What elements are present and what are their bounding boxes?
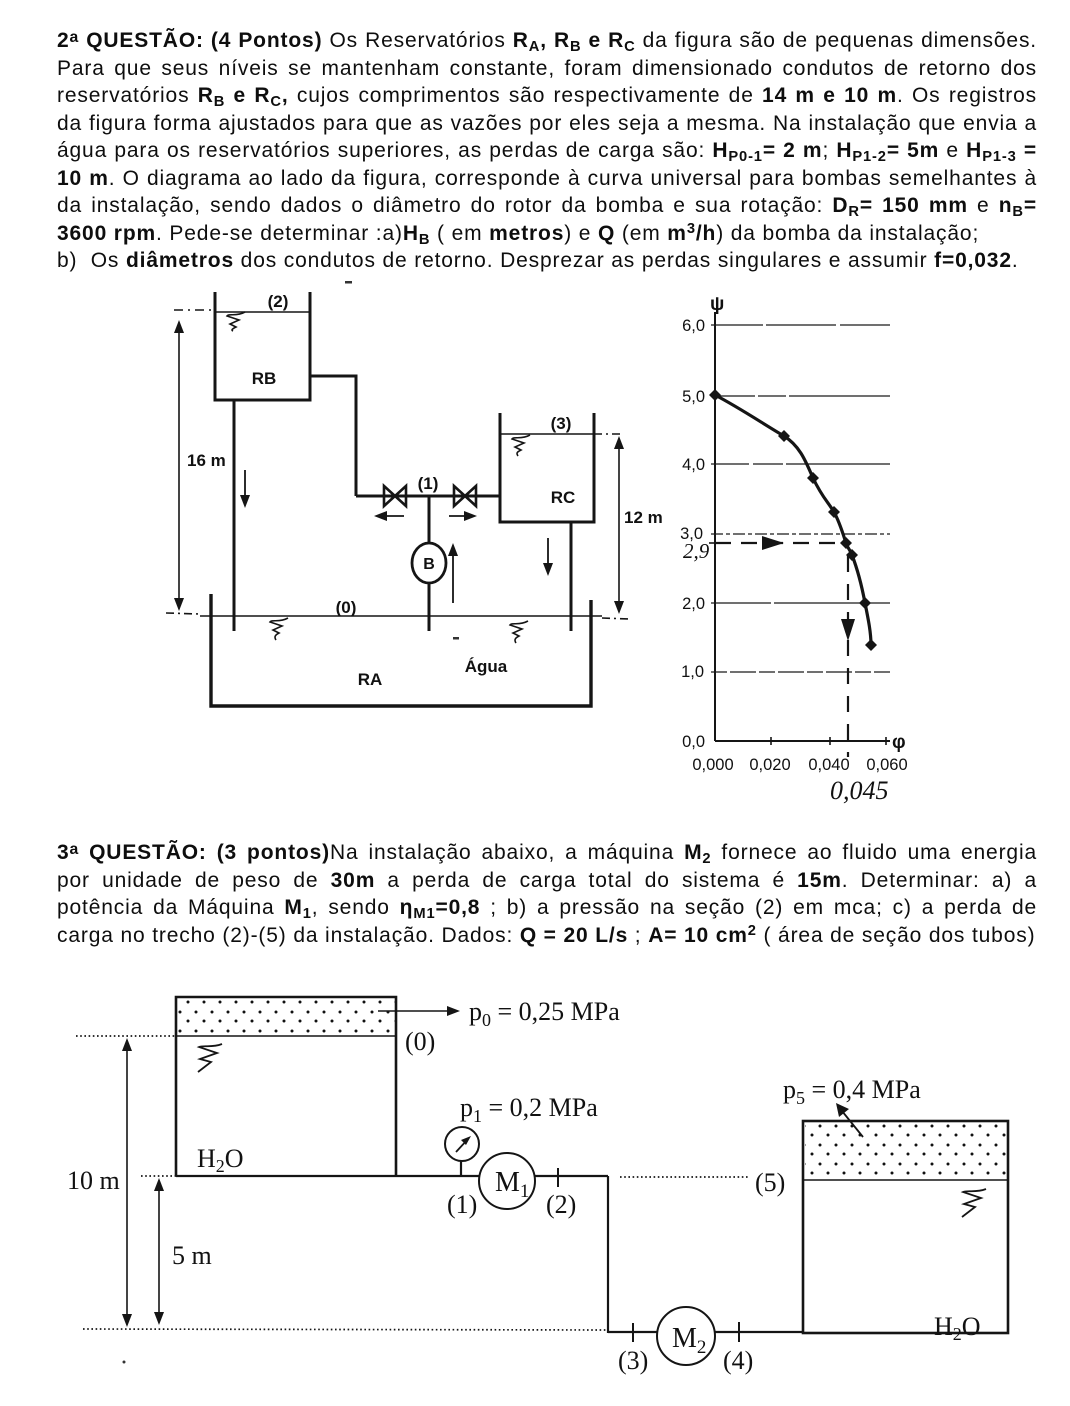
datum dash-dot left of RB	[174, 309, 213, 311]
datum dash-dot left of RA	[166, 613, 200, 614]
pipe RB drain	[233, 400, 236, 631]
svg-text:φ: φ	[892, 732, 906, 753]
bottom pipe	[608, 1331, 803, 1333]
svg-text:(5): (5)	[755, 1168, 785, 1197]
handwritten 0,045	[830, 776, 889, 805]
dotted datum left of pipe level	[141, 1175, 176, 1177]
pump curve	[715, 395, 871, 645]
dashed operating line psi	[715, 536, 845, 550]
label (2)	[268, 292, 289, 311]
label p5 = 0,4 MPa	[783, 1075, 921, 1108]
svg-text:0,020: 0,020	[749, 756, 790, 774]
reservoir RC	[500, 413, 594, 522]
section tick (2)	[557, 1168, 559, 1187]
svg-text:16 m: 16 m	[187, 451, 226, 470]
pipe RB outlet to node 1	[310, 376, 356, 496]
handwritten 2,9	[683, 539, 710, 563]
svg-text:(3): (3)	[618, 1346, 648, 1375]
svg-text:(0): (0)	[405, 1027, 435, 1056]
valve V1	[384, 486, 406, 506]
svg-text:ψ: ψ	[710, 294, 724, 315]
water surface squiggle RC	[512, 435, 530, 456]
tank T5 walls	[803, 1121, 1008, 1333]
stray speck top	[345, 281, 352, 284]
label (3)	[551, 414, 572, 433]
svg-text:p5 = 0,4 MPa: p5 = 0,4 MPa	[783, 1075, 921, 1108]
flow arrow up at pump	[448, 543, 458, 603]
arrow p5	[836, 1103, 863, 1137]
label RB	[252, 369, 277, 388]
valve V2	[454, 486, 476, 506]
axis tick at 2.9	[709, 542, 721, 544]
water level line RC	[500, 433, 594, 435]
dimension 12 m	[614, 436, 663, 614]
psi axis label	[710, 294, 724, 315]
svg-text:(2): (2)	[268, 292, 289, 311]
label (0) section	[405, 1027, 435, 1056]
main pipe level 2	[176, 1175, 608, 1177]
label p0 = 0,25 MPa	[469, 997, 620, 1030]
svg-text:RB: RB	[252, 369, 277, 388]
svg-text:(1): (1)	[418, 474, 439, 493]
pipe header at node 1	[356, 495, 500, 498]
x tick labels	[692, 756, 907, 774]
stray speck	[123, 1361, 126, 1364]
gauge stem	[460, 1161, 462, 1176]
label RC	[551, 488, 576, 507]
reservoir RA	[211, 594, 591, 706]
datum dash-dot right of RA	[602, 618, 630, 619]
label H2O T0	[197, 1144, 244, 1176]
svg-text:RC: RC	[551, 488, 576, 507]
dimension 5 m	[154, 1178, 212, 1325]
svg-text:(4): (4)	[723, 1346, 753, 1375]
dimension 10 m	[67, 1038, 132, 1327]
svg-text:(0): (0)	[336, 598, 357, 617]
label (1)	[447, 1190, 477, 1219]
label RA	[358, 670, 383, 689]
label (0)	[336, 598, 357, 617]
svg-text:5,0: 5,0	[682, 388, 705, 406]
label H2O T5	[934, 1312, 981, 1344]
squiggle T0	[198, 1044, 222, 1072]
gridlines	[711, 325, 890, 672]
pump B	[412, 543, 446, 583]
flow arrow down RC drain	[543, 538, 553, 576]
label (5)	[755, 1168, 785, 1197]
svg-text:(1): (1)	[447, 1190, 477, 1219]
gas band dots T5	[803, 1123, 1008, 1180]
label p1 = 0,2 MPa	[460, 1093, 598, 1126]
stray speck mid	[453, 637, 459, 640]
machine M1	[479, 1153, 535, 1209]
pipe drop	[607, 1176, 609, 1333]
svg-text:0,040: 0,040	[808, 756, 849, 774]
question 3 text block	[57, 839, 1037, 949]
bottom dotted datum	[83, 1329, 606, 1330]
dimension 16 m	[174, 320, 226, 611]
label (4)	[723, 1346, 753, 1375]
question 2 text block	[57, 27, 1037, 275]
label (3)	[618, 1346, 648, 1375]
tank T0 walls	[176, 997, 396, 1176]
node (1) label	[418, 474, 439, 493]
svg-text:0,045: 0,045	[830, 776, 889, 805]
x ticks	[771, 737, 886, 745]
water surface squiggle RA left	[270, 618, 288, 640]
phi axis label	[892, 732, 906, 753]
dotted datum left of T0	[76, 1035, 176, 1037]
y tick labels	[680, 317, 705, 751]
flow arrow down RB drain	[240, 470, 250, 508]
svg-text:RA: RA	[358, 670, 383, 689]
reservoir RB	[215, 292, 310, 400]
svg-text:10 m: 10 m	[67, 1166, 120, 1195]
chart x-axis	[715, 740, 890, 742]
pipe node 1 to pump	[428, 496, 431, 543]
svg-text:p1 = 0,2 MPa: p1 = 0,2 MPa	[460, 1093, 598, 1126]
svg-text:5 m: 5 m	[172, 1241, 212, 1270]
flow arrow left	[374, 511, 404, 521]
curve point markers	[709, 389, 877, 651]
water surface squiggle RB	[227, 312, 245, 331]
svg-text:(3): (3)	[551, 414, 572, 433]
flow arrow right	[449, 511, 477, 521]
svg-text:0,060: 0,060	[866, 756, 907, 774]
chart y-axis	[714, 312, 716, 741]
svg-text:0,000: 0,000	[692, 756, 733, 774]
svg-text:1,0: 1,0	[681, 663, 704, 681]
pipe RC drain	[570, 522, 573, 631]
datum dash-dot right of RC	[594, 433, 624, 435]
gas band dots T0	[176, 999, 396, 1036]
svg-text:0,0: 0,0	[682, 733, 705, 751]
arrow p0	[378, 1006, 460, 1016]
svg-text:12 m: 12 m	[624, 508, 663, 527]
svg-text:4,0: 4,0	[682, 456, 705, 474]
svg-text:p0 = 0,25 MPa: p0 = 0,25 MPa	[469, 997, 620, 1030]
water level line RB	[215, 311, 310, 313]
label (2)	[546, 1190, 576, 1219]
svg-text:2,9: 2,9	[683, 539, 710, 563]
dashed operating line phi	[841, 556, 855, 757]
svg-text:H2O: H2O	[934, 1312, 981, 1344]
pressure gauge	[445, 1127, 479, 1161]
machine M2	[657, 1307, 715, 1365]
svg-text:B: B	[423, 556, 435, 573]
svg-text:Água: Água	[465, 657, 508, 676]
section tick (3)	[632, 1323, 634, 1342]
svg-text:6,0: 6,0	[682, 317, 705, 335]
water level line RA	[200, 615, 602, 617]
svg-text:(2): (2)	[546, 1190, 576, 1219]
section tick (4)	[738, 1322, 740, 1342]
svg-text:H2O: H2O	[197, 1144, 244, 1176]
svg-text:2,0: 2,0	[682, 595, 705, 613]
dotted ref to (5)	[620, 1176, 750, 1178]
squiggle T5	[962, 1189, 986, 1217]
pipe pump suction	[428, 583, 431, 631]
water surface squiggle RA right	[510, 621, 528, 643]
label Agua	[465, 657, 508, 676]
